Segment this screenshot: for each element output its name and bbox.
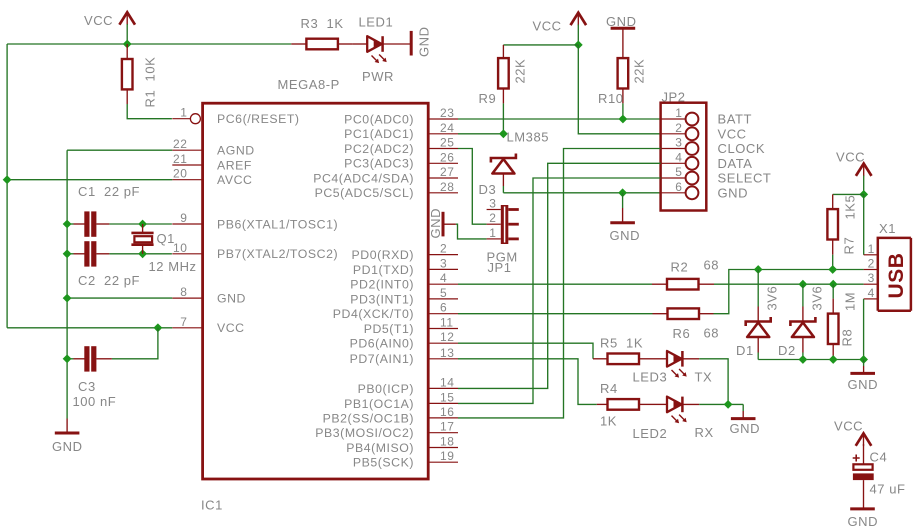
pin 21 stub bbox=[172, 164, 202, 166]
label R2 bbox=[671, 260, 689, 275]
svg-text:C1 22 pF: C1 22 pF bbox=[78, 184, 140, 199]
svg-text:R5 1K: R5 1K bbox=[600, 336, 643, 351]
svg-text:7: 7 bbox=[180, 315, 187, 329]
svg-text:47 uF: 47 uF bbox=[870, 482, 906, 497]
pin 8 stub bbox=[172, 297, 202, 299]
ground GND (below JP2 row) bbox=[610, 193, 641, 243]
svg-text:PC4(ADC4/SDA): PC4(ADC4/SDA) bbox=[313, 171, 414, 185]
pin 23 stub bbox=[428, 118, 458, 120]
svg-text:VCC: VCC bbox=[834, 418, 863, 433]
wire pin12 to R5 bbox=[458, 343, 593, 359]
pin number 17 bbox=[440, 420, 454, 434]
svg-text:RX: RX bbox=[695, 425, 714, 440]
pin 9 stub bbox=[172, 223, 202, 225]
svg-text:PB0(ICP): PB0(ICP) bbox=[358, 382, 414, 396]
label R7 bbox=[842, 237, 857, 255]
label C2 22 pF bbox=[78, 273, 140, 288]
svg-text:C2 22 pF: C2 22 pF bbox=[78, 273, 140, 288]
label LED1 bbox=[359, 15, 394, 30]
ground GND (LED2) bbox=[730, 404, 761, 436]
LED LED1 bbox=[352, 36, 411, 52]
LED2 emission arrows bbox=[672, 415, 687, 424]
svg-text:R3 1K: R3 1K bbox=[301, 16, 344, 31]
svg-text:VCC: VCC bbox=[718, 126, 747, 141]
pin number 14 bbox=[440, 375, 454, 389]
IC1 right pin name labels bbox=[313, 112, 414, 469]
wire LED2 row to GND bbox=[699, 403, 743, 405]
junction on VCC rail at R1 bbox=[123, 40, 132, 49]
svg-text:2: 2 bbox=[675, 121, 682, 135]
svg-text:1K5: 1K5 bbox=[843, 195, 858, 220]
resistor R6 bbox=[458, 308, 714, 319]
label LED3 bbox=[633, 370, 668, 385]
pin 26 stub bbox=[428, 162, 458, 164]
svg-text:19: 19 bbox=[440, 449, 454, 463]
svg-text:3: 3 bbox=[675, 136, 682, 150]
label R6 bbox=[673, 326, 691, 341]
svg-text:2: 2 bbox=[440, 242, 447, 256]
junction USB gnd node bbox=[859, 355, 868, 364]
pin number 18 bbox=[440, 435, 454, 449]
pin 11 stub bbox=[428, 328, 458, 330]
wire left trunk vertical bbox=[66, 150, 68, 418]
label RX bbox=[695, 425, 714, 440]
wire VCC pin7 bbox=[7, 327, 172, 329]
label D2 bbox=[778, 343, 796, 358]
pin number 23 bbox=[440, 106, 454, 120]
resistor R8 bbox=[828, 284, 839, 359]
svg-text:SELECT: SELECT bbox=[718, 171, 772, 186]
svg-text:4: 4 bbox=[675, 151, 682, 165]
wire R1 to reset pin bbox=[127, 104, 172, 119]
label 22K (R10) bbox=[632, 59, 647, 84]
label C1 22 pF bbox=[78, 184, 140, 199]
pin number 25 bbox=[440, 136, 454, 150]
pin 22 stub bbox=[172, 149, 202, 151]
svg-text:PWR: PWR bbox=[362, 69, 394, 84]
label R5 1K bbox=[600, 336, 643, 351]
svg-text:PD0(RXD): PD0(RXD) bbox=[352, 248, 414, 262]
svg-text:Q1: Q1 bbox=[157, 231, 175, 246]
wire pin25 to JP1 pin2 bbox=[458, 149, 487, 225]
pin 16 stub bbox=[428, 417, 458, 419]
pin 13 stub bbox=[428, 358, 458, 360]
pin 12 stub bbox=[428, 342, 458, 344]
pin 20 stub bbox=[172, 179, 202, 181]
label C3 bbox=[78, 379, 96, 394]
pin number 2 bbox=[440, 242, 447, 256]
pin number 28 bbox=[440, 180, 454, 194]
svg-text:20: 20 bbox=[173, 167, 187, 181]
wire SELECT JP2.5 to PB1 bbox=[458, 178, 661, 403]
svg-text:JP2: JP2 bbox=[662, 90, 686, 105]
label 68 (R6) bbox=[704, 325, 720, 340]
wire CLOCK JP2.3 to PB2 bbox=[458, 149, 661, 418]
capacitor C2 bbox=[67, 241, 172, 266]
wire USB GND row bbox=[758, 359, 863, 361]
svg-text:USB: USB bbox=[885, 253, 908, 299]
junction pin7 / C3 branch bbox=[154, 323, 163, 332]
junction R7 on D- row bbox=[828, 265, 837, 274]
IC1 left pin name labels bbox=[217, 112, 338, 335]
label R8 bbox=[840, 329, 855, 347]
op-amp IC1 MEGA8-P body bbox=[203, 103, 429, 479]
capacitor C3 bbox=[67, 346, 112, 371]
junction C2 right / crystal bottom bbox=[138, 249, 147, 258]
svg-text:C4: C4 bbox=[870, 450, 888, 465]
junction D2 on D+ row bbox=[799, 280, 808, 289]
wire BATT row pin23 to JP2 bbox=[458, 118, 661, 120]
wire USB pin4 down bbox=[863, 299, 865, 360]
pin 7 stub bbox=[172, 327, 202, 329]
label 22K (R9) bbox=[513, 59, 528, 84]
pin 27 stub bbox=[428, 177, 458, 179]
svg-text:PD4(XCK/T0): PD4(XCK/T0) bbox=[333, 307, 414, 321]
svg-text:PD1(TXD): PD1(TXD) bbox=[353, 263, 414, 277]
svg-text:16: 16 bbox=[440, 405, 454, 419]
label TX bbox=[695, 370, 713, 385]
pin 14 stub bbox=[428, 387, 458, 389]
svg-text:D2: D2 bbox=[778, 343, 796, 358]
resistor R2 bbox=[458, 279, 714, 290]
ground GND (below C3) bbox=[52, 419, 83, 455]
svg-text:PB5(SCK): PB5(SCK) bbox=[353, 456, 414, 470]
svg-text:23: 23 bbox=[440, 106, 454, 120]
LED3 emission arrows bbox=[672, 369, 687, 378]
svg-text:4: 4 bbox=[440, 271, 447, 285]
label JP1 bbox=[488, 260, 512, 275]
wire pin24 to LM385 bbox=[458, 133, 503, 135]
pin 15 stub bbox=[428, 402, 458, 404]
label C4 bbox=[870, 450, 888, 465]
junction C2 left bbox=[63, 249, 72, 258]
pin 3 stub bbox=[428, 268, 458, 270]
junction VCC2 bbox=[574, 41, 583, 50]
pin number 6 bbox=[440, 301, 447, 315]
X1 pin numbers bbox=[868, 242, 875, 300]
svg-text:R7: R7 bbox=[842, 237, 857, 255]
wire DATA JP2.4 to PB0 bbox=[458, 163, 661, 388]
resistor R1 bbox=[122, 44, 133, 104]
svg-text:22K: 22K bbox=[513, 59, 528, 84]
svg-text:12: 12 bbox=[440, 330, 454, 344]
svg-text:R10: R10 bbox=[598, 91, 624, 106]
svg-text:5: 5 bbox=[440, 286, 447, 300]
label Q1 bbox=[157, 231, 175, 246]
svg-text:R1 10K: R1 10K bbox=[143, 57, 158, 108]
svg-text:22: 22 bbox=[173, 137, 187, 151]
label LED2 bbox=[633, 426, 668, 441]
svg-text:1K: 1K bbox=[600, 414, 617, 429]
svg-text:6: 6 bbox=[440, 301, 447, 315]
power VCC symbol (C4) bbox=[834, 418, 871, 446]
wire LED3 to LED2 row bbox=[699, 359, 728, 405]
svg-text:9: 9 bbox=[180, 211, 187, 225]
svg-text:GND: GND bbox=[848, 377, 879, 392]
svg-text:25: 25 bbox=[440, 136, 454, 150]
wire C3 to pin7 bbox=[112, 328, 158, 359]
svg-text:D1: D1 bbox=[736, 343, 754, 358]
label 47 uF bbox=[870, 482, 906, 497]
svg-text:26: 26 bbox=[440, 150, 454, 164]
svg-text:1M: 1M bbox=[843, 292, 858, 311]
junction C1 right / crystal top bbox=[138, 220, 147, 229]
svg-text:PC1(ADC1): PC1(ADC1) bbox=[344, 127, 414, 141]
label 68 (R2) bbox=[704, 257, 720, 272]
svg-text:3: 3 bbox=[440, 256, 447, 270]
svg-text:2: 2 bbox=[489, 211, 496, 225]
pin 19 stub bbox=[428, 461, 458, 463]
svg-text:15: 15 bbox=[440, 390, 454, 404]
diode D3 zener LM385 bbox=[491, 154, 516, 193]
label PGM bbox=[487, 250, 518, 265]
wire D3 to JP2 GND row bbox=[503, 192, 660, 194]
pin number 1 bbox=[180, 106, 187, 120]
junction VCC3 bbox=[859, 190, 868, 199]
svg-text:BATT: BATT bbox=[718, 112, 752, 127]
svg-text:PD6(AIN0): PD6(AIN0) bbox=[350, 337, 414, 351]
label 3V6 (D1) bbox=[765, 286, 780, 311]
svg-text:R8: R8 bbox=[840, 329, 855, 347]
pin number 15 bbox=[440, 390, 454, 404]
junction D2 bottom bbox=[799, 355, 808, 364]
label MEGA8-P bbox=[278, 77, 340, 92]
label 100 nF bbox=[73, 394, 117, 409]
LED LED3 bbox=[654, 351, 700, 367]
wire AGND pin22 to left trunk bbox=[67, 149, 172, 151]
svg-text:11: 11 bbox=[440, 316, 454, 330]
pin 18 stub bbox=[428, 447, 458, 449]
svg-text:JP1: JP1 bbox=[488, 260, 512, 275]
svg-text:PC6(/RESET): PC6(/RESET) bbox=[217, 112, 300, 126]
wire left vertical branch bbox=[6, 44, 8, 328]
pin number 21 bbox=[173, 152, 187, 166]
svg-text:LED2: LED2 bbox=[633, 426, 668, 441]
svg-text:13: 13 bbox=[440, 346, 454, 360]
svg-text:D3: D3 bbox=[479, 182, 497, 197]
connector X1 USB bbox=[864, 238, 911, 311]
svg-text:3: 3 bbox=[868, 271, 875, 285]
resistor R3 bbox=[291, 39, 352, 50]
junction C3 left bbox=[63, 354, 72, 363]
junction pin8 trunk bbox=[63, 294, 72, 303]
capacitor C4 electrolytic bbox=[853, 444, 874, 509]
svg-text:1: 1 bbox=[868, 242, 875, 256]
svg-text:68: 68 bbox=[704, 325, 720, 340]
label R4 bbox=[600, 381, 618, 396]
svg-text:2: 2 bbox=[868, 257, 875, 271]
svg-text:R6: R6 bbox=[673, 326, 691, 341]
pin number 19 bbox=[440, 449, 454, 463]
svg-text:MEGA8-P: MEGA8-P bbox=[278, 77, 340, 92]
pin number 13 bbox=[440, 346, 454, 360]
resistor R7 bbox=[827, 194, 838, 269]
svg-text:GND: GND bbox=[217, 292, 246, 306]
label JP2 bbox=[662, 90, 686, 105]
svg-text:LM385: LM385 bbox=[507, 130, 550, 145]
wire pin13 to R4 bbox=[458, 359, 597, 405]
svg-text:CLOCK: CLOCK bbox=[718, 141, 766, 156]
svg-text:17: 17 bbox=[440, 420, 454, 434]
svg-text:GND: GND bbox=[428, 208, 443, 239]
svg-text:GND: GND bbox=[610, 228, 641, 243]
svg-text:PB4(MISO): PB4(MISO) bbox=[346, 441, 414, 455]
power VCC symbol (top middle) bbox=[533, 13, 587, 34]
pin number 9 bbox=[180, 211, 187, 225]
svg-text:PB3(MOSI/OC2): PB3(MOSI/OC2) bbox=[315, 426, 414, 440]
label 1K5 (R7) bbox=[843, 195, 858, 220]
wire D- row to USB pin2 bbox=[714, 270, 864, 314]
LED1 emission arrows bbox=[372, 55, 387, 64]
ground GND (above R10) bbox=[606, 14, 637, 58]
wire JP1 GND to pin1 bbox=[443, 224, 487, 239]
pin number 11 bbox=[440, 316, 454, 330]
JP1 pin numbers bbox=[489, 197, 496, 240]
svg-text:GND: GND bbox=[718, 185, 749, 200]
pin 5 stub bbox=[428, 298, 458, 300]
svg-text:VCC: VCC bbox=[217, 321, 245, 335]
svg-text:LED3: LED3 bbox=[633, 370, 668, 385]
resistor R10 bbox=[618, 58, 629, 119]
svg-text:GND: GND bbox=[848, 514, 879, 529]
resistor R9 bbox=[498, 45, 509, 134]
pin number 4 bbox=[440, 271, 447, 285]
pin number 3 bbox=[440, 256, 447, 270]
JP2 net labels bbox=[718, 112, 772, 201]
svg-text:DATA: DATA bbox=[718, 156, 753, 171]
pin number 12 bbox=[440, 330, 454, 344]
pin number 5 bbox=[440, 286, 447, 300]
label R9 bbox=[479, 91, 497, 106]
svg-text:PD2(INT0): PD2(INT0) bbox=[350, 278, 414, 292]
label X1 bbox=[879, 221, 896, 236]
svg-text:22K: 22K bbox=[632, 59, 647, 84]
svg-text:AREF: AREF bbox=[217, 158, 252, 172]
wire VCC3 to USB pin1 bbox=[864, 194, 878, 254]
svg-text:12 MHz: 12 MHz bbox=[149, 259, 197, 274]
svg-text:10: 10 bbox=[173, 241, 187, 255]
svg-text:24: 24 bbox=[440, 121, 454, 135]
connector JP1 bbox=[487, 205, 519, 244]
label D1 bbox=[736, 343, 754, 358]
junction R10 on BATT row bbox=[619, 115, 628, 124]
svg-text:18: 18 bbox=[440, 435, 454, 449]
svg-text:3V6: 3V6 bbox=[810, 286, 825, 311]
pin number 27 bbox=[440, 165, 454, 179]
svg-text:VCC: VCC bbox=[533, 18, 562, 33]
svg-text:VCC: VCC bbox=[836, 150, 865, 165]
wire D+ row to USB pin3 bbox=[714, 283, 864, 285]
label R3 1K bbox=[301, 16, 344, 31]
svg-text:C3: C3 bbox=[78, 379, 96, 394]
svg-text:1: 1 bbox=[489, 226, 496, 240]
label D3 bbox=[479, 182, 497, 197]
pin 10 stub bbox=[172, 253, 202, 255]
resistor R5 bbox=[593, 354, 654, 365]
capacitor C1 bbox=[67, 211, 172, 236]
power VCC symbol (top left) bbox=[84, 12, 135, 28]
junction D1 on D- row bbox=[754, 265, 763, 274]
pin 28 stub bbox=[428, 192, 458, 194]
svg-text:27: 27 bbox=[440, 165, 454, 179]
ground GND (after LED1) bbox=[411, 26, 431, 57]
label 1M (R8) bbox=[843, 292, 858, 311]
svg-text:PD7(AIN1): PD7(AIN1) bbox=[350, 352, 414, 366]
svg-text:100 nF: 100 nF bbox=[73, 394, 117, 409]
svg-text:14: 14 bbox=[440, 375, 454, 389]
pin 4 stub bbox=[428, 283, 458, 285]
svg-text:PC5(ADC5/SCL): PC5(ADC5/SCL) bbox=[315, 186, 414, 200]
svg-text:AGND: AGND bbox=[217, 144, 255, 158]
svg-text:5: 5 bbox=[675, 165, 682, 179]
label LM385 bbox=[507, 130, 550, 145]
ground GND (USB) bbox=[848, 360, 879, 393]
svg-text:X1: X1 bbox=[879, 221, 896, 236]
wire AVCC pin20 bbox=[7, 179, 172, 181]
junction LM385 node bbox=[499, 129, 508, 138]
pin number 16 bbox=[440, 405, 454, 419]
pin number 20 bbox=[173, 167, 187, 181]
label R10 bbox=[598, 91, 624, 106]
pin 2 stub bbox=[428, 254, 458, 256]
svg-text:GND: GND bbox=[52, 439, 83, 454]
svg-text:R2: R2 bbox=[671, 260, 689, 275]
label 1K (R4) bbox=[600, 414, 617, 429]
svg-text:PB7(XTAL2/TOSC2): PB7(XTAL2/TOSC2) bbox=[217, 247, 338, 261]
svg-text:PC3(ADC3): PC3(ADC3) bbox=[344, 157, 414, 171]
svg-text:28: 28 bbox=[440, 180, 454, 194]
svg-text:1: 1 bbox=[675, 106, 682, 120]
junction AVCC left rail bbox=[3, 175, 12, 184]
pin number 26 bbox=[440, 150, 454, 164]
label 3V6 (D2) bbox=[810, 286, 825, 311]
pin number 8 bbox=[180, 285, 187, 299]
junction R8 on D+ row bbox=[829, 280, 838, 289]
svg-text:IC1: IC1 bbox=[201, 498, 223, 513]
svg-text:6: 6 bbox=[675, 180, 682, 194]
pin 17 stub bbox=[428, 432, 458, 434]
diode D1 zener bbox=[746, 270, 771, 360]
pin number 22 bbox=[173, 137, 187, 151]
svg-text:3: 3 bbox=[489, 197, 496, 211]
svg-text:VCC: VCC bbox=[84, 13, 113, 28]
pin number 7 bbox=[180, 315, 187, 329]
svg-text:R4: R4 bbox=[600, 381, 618, 396]
svg-text:PB6(XTAL1/TOSC1): PB6(XTAL1/TOSC1) bbox=[217, 217, 338, 231]
wire VCC2 down to JP2 VCC bbox=[578, 45, 660, 134]
ground GND (C4) bbox=[848, 509, 879, 529]
svg-text:AVCC: AVCC bbox=[217, 173, 252, 187]
label R1 10K bbox=[143, 57, 158, 108]
junction R8 bottom bbox=[829, 355, 838, 364]
svg-text:PB2(SS/OC1B): PB2(SS/OC1B) bbox=[323, 411, 414, 425]
svg-text:PD5(T1): PD5(T1) bbox=[364, 322, 414, 336]
wire VCC3 stem bbox=[863, 176, 865, 195]
label USB bbox=[885, 253, 908, 299]
junction C1 left bbox=[63, 220, 72, 229]
wire VCC2 to R9 bbox=[503, 44, 578, 46]
junction GND row below R10 bbox=[618, 188, 627, 197]
svg-text:PC0(ADC0): PC0(ADC0) bbox=[344, 112, 414, 126]
svg-text:21: 21 bbox=[173, 152, 187, 166]
svg-text:3V6: 3V6 bbox=[765, 286, 780, 311]
svg-text:LED1: LED1 bbox=[359, 15, 394, 30]
svg-text:GND: GND bbox=[730, 421, 761, 436]
svg-text:R9: R9 bbox=[479, 91, 497, 106]
ground GND (JP1) bbox=[428, 208, 443, 239]
svg-text:PD3(INT1): PD3(INT1) bbox=[350, 292, 414, 306]
connector JP2 bbox=[661, 103, 707, 211]
